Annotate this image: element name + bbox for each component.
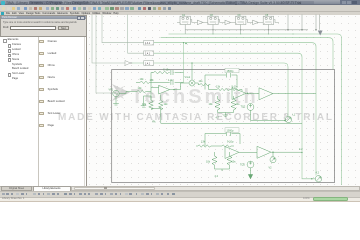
op-amp OP5 bbox=[257, 146, 271, 158]
resistor RF1 bbox=[151, 71, 170, 74]
menu bar bbox=[0, 12, 360, 16]
wire opamp out to mult bbox=[170, 83, 189, 90]
ground stage2 bbox=[223, 115, 228, 116]
resistor R9 bbox=[212, 145, 234, 147]
wire bottom stage3 bbox=[215, 169, 230, 171]
status bar bbox=[0, 197, 360, 201]
source VS2 bbox=[247, 161, 254, 168]
wire B to right bbox=[154, 53, 316, 179]
resistor RO1 bbox=[195, 83, 210, 90]
wire C to right bbox=[154, 63, 288, 116]
resistor R4 bbox=[209, 88, 232, 90]
wire fb loop bbox=[205, 134, 240, 147]
wire input node bbox=[150, 73, 152, 101]
wire r3 to node bbox=[147, 91, 151, 93]
wire op4 out bbox=[239, 151, 257, 153]
gain block A1 bbox=[125, 40, 154, 65]
op-amp OP3 bbox=[259, 88, 273, 100]
wire fb loop bbox=[205, 75, 237, 90]
canvas h-scrollbar bbox=[71, 186, 360, 191]
svg-text:4.2: 4.2 bbox=[299, 148, 303, 151]
wire long bus E bbox=[161, 38, 333, 70]
window buttons bbox=[340, 0, 360, 5]
resistor R1 bbox=[149, 96, 153, 110]
buffer B1 bbox=[197, 20, 203, 24]
resistor R6 bbox=[215, 96, 220, 113]
ground G2 bbox=[141, 96, 151, 107]
resistor R10 bbox=[212, 152, 217, 169]
wire from top to generator bbox=[96, 15, 112, 94]
wire op2 out bbox=[246, 92, 259, 94]
wire from top to inverter bbox=[92, 15, 125, 64]
svg-text:1 A 1: 1 A 1 bbox=[145, 42, 151, 45]
bus wire bbox=[185, 29, 308, 31]
wire gen to R3 bbox=[119, 92, 137, 94]
main toolbar bbox=[0, 5, 360, 12]
svg-text:TΩ5: TΩ5 bbox=[240, 164, 245, 167]
flip-flop U3 bbox=[236, 16, 246, 24]
svg-text:9-109: 9-109 bbox=[232, 85, 239, 88]
svg-text:4.7: 4.7 bbox=[216, 117, 220, 120]
wire mult input from bus C bbox=[191, 63, 193, 80]
ground arrow bbox=[248, 175, 252, 179]
app icon bbox=[1, 1, 5, 5]
inverter N1 bbox=[125, 61, 131, 66]
probe L1 bbox=[285, 116, 291, 122]
svg-text:TΩ2: TΩ2 bbox=[241, 106, 246, 109]
svg-text:VF1: VF1 bbox=[109, 89, 114, 92]
left panel: tree + folder list bbox=[0, 37, 87, 186]
tab: Library Elements bbox=[33, 186, 71, 191]
mouse cursor bbox=[318, 31, 323, 36]
svg-text:1000p: 1000p bbox=[227, 129, 235, 132]
wire A to right bbox=[154, 43, 316, 176]
wire drop from bus A bbox=[183, 43, 185, 83]
flip-flop U4 bbox=[263, 16, 273, 24]
label box 1000p bbox=[225, 128, 239, 132]
resistor RIN bbox=[136, 81, 151, 84]
multiplier M1 bbox=[189, 80, 195, 86]
op-amp OP4 bbox=[225, 147, 239, 159]
gain block A3 bbox=[144, 61, 154, 66]
tab: Original Sheet bbox=[1, 186, 32, 191]
flip-flop U2 bbox=[208, 16, 218, 24]
resistor R11 bbox=[227, 152, 232, 169]
bottom tab strip bbox=[0, 186, 360, 192]
wire bottom stage2 bbox=[218, 113, 234, 116]
title text bbox=[6, 1, 301, 5]
svg-text:Vmul: Vmul bbox=[185, 76, 191, 79]
green progress bbox=[313, 197, 348, 201]
svg-text:1500p: 1500p bbox=[227, 70, 235, 73]
buffer B2 bbox=[225, 20, 231, 24]
watermark TechSmith logo bbox=[112, 84, 130, 101]
capacitor C3 bbox=[227, 131, 231, 136]
svg-text:1 A 1: 1 A 1 bbox=[145, 53, 151, 56]
wire from top to box A2 bbox=[128, 15, 144, 54]
svg-text:9-10p: 9-10p bbox=[227, 141, 234, 144]
svg-text:C 15n: C 15n bbox=[163, 69, 170, 72]
wire from top to box A1 bbox=[102, 15, 144, 43]
junction dots bus bbox=[212, 29, 213, 30]
window title bar bbox=[0, 0, 360, 5]
capacitor C2 bbox=[227, 73, 231, 78]
svg-text:4.2: 4.2 bbox=[215, 175, 219, 178]
capacitor CF2 bbox=[171, 80, 173, 85]
generator VG1 bbox=[113, 90, 119, 105]
resistor R7 bbox=[231, 96, 236, 113]
bottom edge bbox=[0, 201, 360, 203]
probe V2 bbox=[272, 152, 274, 157]
resistor R2 bbox=[159, 95, 163, 110]
op-amp OP1 bbox=[159, 85, 170, 94]
wire bottom stage1 bbox=[151, 107, 161, 109]
resistor R5 bbox=[231, 88, 242, 91]
macro block outline bbox=[112, 70, 335, 183]
resistor R8 bbox=[196, 145, 212, 147]
canvas bbox=[87, 15, 360, 186]
search dialog bbox=[0, 15, 87, 37]
wire op5 out bbox=[271, 151, 302, 153]
wire opamp input bbox=[151, 86, 159, 88]
svg-text:13a: 13a bbox=[142, 103, 147, 106]
resistor R3 bbox=[137, 90, 147, 92]
probe L2 bbox=[315, 176, 321, 182]
wire vertical top right bbox=[288, 15, 320, 30]
chain labels bbox=[182, 15, 269, 17]
op-amp OP2 bbox=[232, 88, 246, 100]
wire drop to bus F bbox=[161, 108, 302, 123]
wire top chain bbox=[177, 20, 279, 23]
wire long bus D bbox=[161, 34, 342, 185]
label box 1500p bbox=[225, 68, 239, 72]
capacitor CF1 bbox=[171, 70, 184, 75]
svg-text:4.2: 4.2 bbox=[316, 172, 320, 175]
source VS1 bbox=[247, 104, 254, 111]
wire fb2 bbox=[151, 81, 184, 83]
svg-text:1.3n: 1.3n bbox=[168, 79, 173, 82]
wire stubs down bbox=[185, 25, 268, 35]
flip-flop U1 bbox=[180, 16, 190, 24]
bottom toolbar bbox=[0, 191, 360, 197]
wire op3 out bbox=[273, 93, 316, 95]
buffer B3 bbox=[253, 20, 259, 24]
svg-text:1 A 1: 1 A 1 bbox=[145, 63, 151, 66]
gain block A2 bbox=[144, 51, 154, 56]
